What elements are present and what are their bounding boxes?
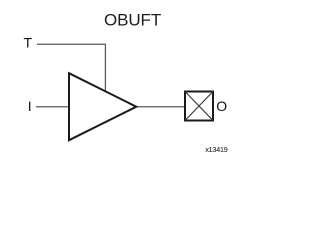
svg-text:OBUFT: OBUFT [104,11,161,30]
svg-text:O: O [216,98,227,114]
buffer triangle U1 [69,73,136,140]
wire I to buffer input [36,106,69,108]
wire buffer output to pad [136,106,185,108]
pad diagonal 1 [185,92,213,121]
svg-text:x13419: x13419 [205,145,227,154]
pad symbol (box with X) [185,92,213,121]
svg-text:I: I [28,98,32,114]
svg-text:T: T [24,34,33,50]
wire T to buffer top [37,44,105,91]
pad diagonal 2 [185,92,213,121]
